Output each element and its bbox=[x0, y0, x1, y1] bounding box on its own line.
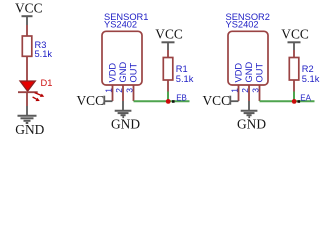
power port VCC (R2 top) bbox=[281, 27, 309, 51]
svg-text:R2: R2 bbox=[302, 64, 314, 74]
wire green stub (R2 to net) bbox=[293, 92, 295, 102]
svg-text:VCC: VCC bbox=[155, 27, 183, 42]
ground GND (SENSOR1 pin2) bbox=[111, 101, 140, 132]
svg-text:GND: GND bbox=[118, 62, 128, 83]
svg-text:GND: GND bbox=[15, 122, 44, 137]
pin 2 GND (SENSOR2) bbox=[240, 62, 254, 101]
pin 3 OUT (SENSOR1) bbox=[124, 63, 138, 101]
svg-text:5.1k: 5.1k bbox=[302, 74, 320, 84]
ground GND (left column) bbox=[15, 106, 44, 137]
ground GND (SENSOR2 pin2) bbox=[237, 101, 266, 132]
svg-text:3: 3 bbox=[250, 88, 260, 93]
junction EA bbox=[292, 99, 297, 104]
svg-text:2: 2 bbox=[114, 88, 124, 93]
wire VCC to R1 bbox=[167, 50, 169, 58]
svg-text:VCC: VCC bbox=[281, 27, 309, 42]
svg-text:VCC: VCC bbox=[15, 1, 43, 16]
svg-text:3: 3 bbox=[124, 88, 134, 93]
svg-text:R1: R1 bbox=[176, 64, 188, 74]
svg-text:5.1k: 5.1k bbox=[176, 74, 194, 84]
LED D1 bbox=[18, 78, 52, 101]
pin 3 OUT (SENSOR2) bbox=[250, 63, 264, 101]
wire VCC to R3 bbox=[26, 25, 28, 36]
svg-text:5.1k: 5.1k bbox=[35, 49, 53, 59]
svg-text:2: 2 bbox=[240, 88, 250, 93]
sensor U? SENSOR1 YS2402 bbox=[102, 12, 148, 85]
power port VCC (SENSOR2 pin1) bbox=[203, 93, 239, 108]
svg-text:VDD: VDD bbox=[234, 63, 244, 83]
svg-text:EA: EA bbox=[300, 93, 311, 102]
svg-text:VDD: VDD bbox=[108, 63, 118, 83]
wire R2 to junction bbox=[293, 80, 295, 92]
node anchor EB bbox=[172, 100, 175, 103]
svg-text:VCC: VCC bbox=[203, 93, 231, 108]
svg-text:OUT: OUT bbox=[129, 63, 139, 83]
junction EB bbox=[166, 99, 171, 104]
power port VCC (SENSOR1 pin1) bbox=[77, 93, 113, 108]
svg-text:1: 1 bbox=[103, 88, 113, 93]
pin 2 GND (SENSOR1) bbox=[114, 62, 128, 101]
power port VCC (left column) bbox=[15, 1, 43, 26]
wire R3 to D1 bbox=[26, 56, 28, 81]
resistor R3 bbox=[22, 36, 52, 59]
svg-text:VCC: VCC bbox=[77, 93, 105, 108]
resistor R2 bbox=[289, 58, 319, 85]
svg-text:1: 1 bbox=[229, 88, 239, 93]
resistor R1 bbox=[163, 58, 193, 85]
pin 1 VDD (SENSOR1) bbox=[103, 63, 117, 101]
wire net EB (green) bbox=[134, 100, 190, 102]
svg-text:EB: EB bbox=[176, 93, 187, 102]
node anchor EA bbox=[298, 100, 301, 103]
wire VCC to R2 bbox=[293, 50, 295, 58]
power port VCC (R1 top) bbox=[155, 27, 183, 51]
svg-text:YS2402: YS2402 bbox=[104, 20, 137, 30]
svg-text:GND: GND bbox=[111, 117, 140, 132]
svg-text:YS2402: YS2402 bbox=[226, 20, 259, 30]
svg-text:OUT: OUT bbox=[255, 63, 265, 83]
wire D1 to GND bbox=[26, 92, 28, 106]
svg-text:GND: GND bbox=[244, 62, 254, 83]
pin 1 VDD (SENSOR2) bbox=[229, 63, 243, 101]
wire net EA (green) bbox=[260, 100, 315, 102]
svg-text:GND: GND bbox=[237, 117, 266, 132]
wire R1 to junction bbox=[167, 80, 169, 92]
sensor U? SENSOR2 YS2402 bbox=[226, 12, 270, 85]
svg-text:D1: D1 bbox=[41, 78, 53, 88]
wire green stub (R1 to net) bbox=[167, 92, 169, 102]
